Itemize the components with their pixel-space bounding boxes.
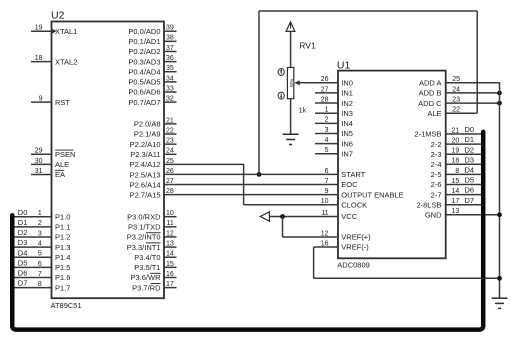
svg-text:IN0: IN0 [341, 79, 353, 88]
svg-text:P0.1/AD1: P0.1/AD1 [128, 37, 160, 46]
U2 pin 1 P1.0 wire to left bus, node D0 [14, 208, 70, 222]
svg-text:35: 35 [166, 65, 174, 72]
svg-text:16: 16 [166, 271, 174, 278]
svg-text:XTAL1: XTAL1 [55, 27, 77, 36]
U2 pin 6 P1.5 wire to left bus, node D5 [14, 258, 70, 272]
svg-text:ADD C: ADD C [418, 99, 442, 108]
svg-text:P0.3/AD3: P0.3/AD3 [128, 57, 160, 66]
U2 pin 34 P0.5/AD5 [128, 75, 176, 86]
svg-text:D3: D3 [465, 155, 475, 164]
ground symbol bottom right [492, 298, 508, 308]
U1 pin 9 OUTPUT ENABLE [325, 188, 404, 199]
svg-text:P2.4/A12: P2.4/A12 [130, 160, 161, 169]
U2 pin 25 P2.4/A12 [130, 158, 174, 169]
U1 pin 23 ADD C [418, 97, 460, 108]
power terminal arrow for RV1 [286, 22, 295, 32]
U1 pin 1 IN3 [315, 107, 353, 118]
ADC U1 ADC0809 body [337, 59, 446, 269]
U2 pin 30 ALE [31, 158, 69, 169]
svg-text:U2: U2 [51, 10, 65, 22]
svg-text:22: 22 [166, 127, 174, 134]
svg-text:19: 19 [452, 148, 460, 155]
svg-text:P2.5/A13: P2.5/A13 [130, 170, 161, 179]
svg-text:8: 8 [455, 168, 459, 175]
junction on VCC net [280, 214, 285, 219]
svg-text:18: 18 [452, 158, 460, 165]
svg-text:19: 19 [35, 25, 43, 32]
U2 pin 39 P0.0/AD0 [128, 25, 176, 36]
U1 pin 26 IN0 [321, 76, 353, 87]
U2 pin 11 P3.1/TXD [128, 220, 177, 231]
svg-text:31: 31 [35, 168, 43, 175]
svg-text:2: 2 [325, 117, 329, 124]
svg-text:P1.2: P1.2 [55, 233, 70, 242]
U1 pin 21 2-1MSB wire to right bus, node D0 [414, 125, 481, 139]
svg-text:XTAL2: XTAL2 [55, 57, 77, 66]
U1 pin 11 VCC [321, 210, 357, 221]
svg-text:P0.0/AD0: P0.0/AD0 [128, 27, 160, 36]
U2 pin 37 P0.2/AD2 [128, 45, 176, 56]
svg-text:P0.4/AD4: P0.4/AD4 [128, 67, 160, 76]
svg-text:VREF(+): VREF(+) [341, 233, 371, 242]
U1 pin 10 CLOCK [321, 198, 367, 209]
svg-text:OUTPUT ENABLE: OUTPUT ENABLE [341, 190, 403, 199]
U2 pin 13 P3.3/INT1 [127, 240, 177, 251]
svg-text:P0.6/AD6: P0.6/AD6 [128, 88, 160, 97]
wire P2.7/A15 to ADC OUTPUT ENABLE (net OE) [164, 194, 338, 196]
svg-text:27: 27 [321, 86, 329, 93]
svg-text:D6: D6 [18, 269, 28, 278]
svg-text:ALE: ALE [55, 160, 69, 169]
svg-text:P1.0: P1.0 [55, 212, 70, 221]
svg-text:38: 38 [166, 35, 174, 42]
U2 pin 28 P2.7/A15 [130, 188, 174, 199]
svg-text:P3.7/RD: P3.7/RD [132, 283, 161, 292]
U2 pin 24 P2.3/A11 [130, 148, 176, 159]
svg-text:33: 33 [166, 85, 174, 92]
svg-text:39: 39 [166, 25, 174, 32]
U2 pin 19 XTAL1 [31, 25, 77, 36]
U2 pin 9 RST [31, 96, 70, 107]
svg-text:13: 13 [452, 208, 460, 215]
U1 pin 2 IN4 [315, 117, 353, 128]
junction VREF(-) return on ground rail [497, 276, 502, 281]
junction ADD B on ground rail [497, 91, 502, 96]
svg-text:2: 2 [38, 220, 42, 227]
svg-text:D6: D6 [465, 186, 475, 195]
svg-text:D4: D4 [18, 248, 28, 257]
svg-text:P2.0/A8: P2.0/A8 [134, 120, 161, 129]
svg-text:2-7: 2-7 [431, 190, 442, 199]
svg-text:IN6: IN6 [341, 139, 353, 148]
potentiometer RV1 [287, 41, 316, 115]
U1 pin 4 IN6 [315, 137, 353, 148]
power terminal arrow for VCC net [260, 212, 269, 221]
svg-text:17: 17 [452, 198, 460, 205]
U2 pin 3 P1.2 wire to left bus, node D2 [14, 228, 70, 242]
svg-text:18: 18 [35, 55, 43, 62]
svg-text:D7: D7 [18, 279, 28, 288]
U1 pin 7 EOC [325, 178, 359, 189]
U2 pin 38 P0.1/AD1 [128, 35, 176, 46]
microcontroller U2 AT89C51 body [51, 10, 165, 311]
U2 pin 4 P1.3 wire to left bus, node D3 [14, 238, 70, 252]
U2 pin 29 PSEN [31, 148, 75, 159]
U1 pin 20 2-2 wire to right bus, node D1 [431, 135, 481, 149]
svg-text:21: 21 [166, 117, 174, 124]
svg-text:13: 13 [166, 240, 174, 247]
svg-text:30: 30 [35, 158, 43, 165]
svg-text:34: 34 [166, 75, 174, 82]
svg-text:P0.2/AD2: P0.2/AD2 [128, 47, 160, 56]
U1 pin 24 ADD B [419, 86, 461, 97]
U2 pin 27 P2.6/A14 [130, 178, 174, 189]
svg-text:D2: D2 [465, 145, 475, 154]
svg-text:12: 12 [166, 230, 174, 237]
svg-text:P0.7/AD7: P0.7/AD7 [128, 98, 160, 107]
U2 pin 15 P3.5/T1 [134, 261, 176, 272]
U2 XTAL1 clock input arrow [52, 29, 57, 34]
svg-text:24: 24 [166, 148, 174, 155]
svg-text:ADD A: ADD A [419, 79, 442, 88]
wire ADD A pin 25 to ground rail [446, 82, 500, 84]
svg-text:1k: 1k [299, 107, 307, 114]
svg-text:RST: RST [55, 98, 70, 107]
junction GND pin 13 on ground rail [497, 212, 502, 217]
U1 pin 15 2-6 wire to right bus, node D5 [431, 176, 481, 190]
U2 pin 22 P2.1/A9 [134, 127, 177, 138]
U2 pin 10 P3.0/RXD [127, 210, 176, 221]
svg-text:P1.6: P1.6 [55, 273, 70, 282]
svg-text:P2.1/A9: P2.1/A9 [134, 130, 161, 139]
svg-text:23: 23 [166, 138, 174, 145]
svg-text:14: 14 [452, 188, 460, 195]
svg-text:15: 15 [452, 178, 460, 185]
svg-text:3: 3 [325, 127, 329, 134]
svg-text:29: 29 [35, 148, 43, 155]
svg-text:P3.5/T1: P3.5/T1 [134, 263, 160, 272]
wire ADD C pin 23 to ground rail [446, 102, 500, 104]
U1 pin 6 START [325, 168, 366, 179]
wire VCC junction down to VREF(+) pin 12 [283, 217, 339, 238]
svg-text:1: 1 [325, 107, 329, 114]
U2 pin 32 P0.7/AD7 [128, 96, 176, 107]
svg-text:36: 36 [166, 55, 174, 62]
svg-text:2-8LSB: 2-8LSB [416, 200, 441, 209]
svg-text:6: 6 [38, 261, 42, 268]
svg-text:P1.1: P1.1 [55, 223, 70, 232]
svg-text:2-2: 2-2 [431, 140, 442, 149]
svg-text:U1: U1 [337, 59, 351, 71]
RV1 decrement marker (circled down arrow) [278, 92, 284, 99]
svg-text:IN3: IN3 [341, 109, 353, 118]
svg-text:4: 4 [325, 137, 329, 144]
U2 pin 14 P3.4/T0 [134, 251, 176, 262]
U1 pin 18 2-4 wire to right bus, node D3 [431, 155, 481, 169]
svg-text:9: 9 [39, 96, 43, 103]
svg-text:VCC: VCC [341, 212, 357, 221]
U2 pin 16 P3.6/WR [130, 271, 176, 282]
svg-text:P1.3: P1.3 [55, 243, 70, 252]
svg-text:2-5: 2-5 [431, 170, 442, 179]
svg-text:P1.7: P1.7 [55, 283, 70, 292]
svg-text:START: START [341, 170, 365, 179]
svg-text:P0.5/AD5: P0.5/AD5 [128, 78, 160, 87]
svg-text:VREF(-): VREF(-) [341, 243, 369, 252]
svg-text:10: 10 [166, 210, 174, 217]
wire VREF(-) pin 16 to ground rail [314, 247, 500, 278]
svg-text:GND: GND [425, 211, 442, 220]
wire P2.4/A12 to ADC CLOCK (net CLOCK) [164, 164, 338, 205]
svg-text:4: 4 [38, 240, 42, 247]
U1 pin 19 2-3 wire to right bus, node D2 [431, 145, 481, 159]
U2 pin 26 P2.5/A13 [130, 168, 174, 179]
svg-text:EA: EA [55, 170, 65, 179]
svg-text:2-1MSB: 2-1MSB [414, 130, 441, 139]
wire power arrow to RV1 top [290, 31, 292, 67]
U1 pin 22 ALE [427, 107, 460, 118]
U2 pin 31 EA [31, 168, 65, 179]
svg-text:IN7: IN7 [341, 149, 353, 158]
svg-text:P2.2/A10: P2.2/A10 [130, 140, 161, 149]
svg-text:50%: 50% [289, 79, 294, 88]
U1 pin 12 VREF(+) [321, 230, 371, 241]
U1 pin 28 IN2 [315, 96, 353, 107]
svg-text:P2.6/A14: P2.6/A14 [130, 180, 161, 189]
svg-text:P2.7/A15: P2.7/A15 [130, 191, 161, 200]
svg-text:D3: D3 [18, 238, 28, 247]
svg-text:5: 5 [38, 251, 42, 258]
svg-text:32: 32 [166, 96, 174, 103]
wire START net up-and-over loop to ADC ALE pin 22 [259, 11, 477, 174]
svg-text:D5: D5 [465, 176, 475, 185]
svg-text:ADC0809: ADC0809 [337, 261, 370, 270]
svg-text:P1.5: P1.5 [55, 263, 70, 272]
svg-text:D1: D1 [18, 218, 28, 227]
svg-text:15: 15 [166, 261, 174, 268]
svg-text:2-3: 2-3 [431, 150, 442, 159]
U2 pin 2 P1.1 wire to left bus, node D1 [14, 218, 70, 232]
junction ADD C on ground rail [497, 101, 502, 106]
svg-text:ALE: ALE [427, 109, 441, 118]
svg-text:IN1: IN1 [341, 89, 353, 98]
svg-text:20: 20 [452, 138, 460, 145]
U1 pin 5 IN7 [315, 147, 353, 158]
U1 pin 16 VREF(-) [321, 240, 370, 251]
wire P2.5/A13 to ADC START (net START) [164, 173, 338, 175]
svg-text:PSEN: PSEN [55, 150, 75, 159]
U2 pin 23 P2.2/A10 [130, 138, 177, 149]
svg-text:P3.3/INT1: P3.3/INT1 [127, 243, 161, 252]
svg-text:14: 14 [166, 251, 174, 258]
svg-text:D2: D2 [18, 228, 28, 237]
svg-text:3: 3 [38, 230, 42, 237]
U1 pin 3 IN5 [315, 127, 353, 138]
RV1 increment marker (circled up arrow) [278, 69, 284, 76]
svg-text:8: 8 [38, 281, 42, 288]
svg-text:RV1: RV1 [299, 41, 316, 51]
U1 pin 27 IN1 [315, 86, 353, 97]
svg-text:11: 11 [167, 220, 174, 227]
svg-text:P3.0/RXD: P3.0/RXD [127, 212, 161, 221]
svg-text:P3.4/T0: P3.4/T0 [134, 253, 160, 262]
svg-text:2-6: 2-6 [431, 180, 442, 189]
U2 pin 33 P0.6/AD6 [128, 85, 176, 96]
svg-text:21: 21 [452, 127, 460, 134]
junction on START net [257, 172, 262, 177]
U2 pin 36 P0.3/AD3 [128, 55, 176, 66]
svg-text:D0: D0 [465, 125, 475, 134]
svg-text:5: 5 [325, 147, 329, 154]
svg-text:IN4: IN4 [341, 119, 353, 128]
U1 pin 25 ADD A [419, 76, 460, 87]
svg-text:28: 28 [321, 96, 329, 103]
svg-text:P2.3/A11: P2.3/A11 [130, 150, 160, 159]
wire VCC pin 11 to power arrow [269, 216, 338, 218]
U2 pin 21 P2.0/A8 [134, 117, 177, 128]
U1 pin 13 GND wire to ground rail [425, 208, 500, 219]
svg-text:P3.2/INT0: P3.2/INT0 [127, 233, 161, 242]
svg-text:1: 1 [38, 210, 42, 217]
U2 pin 35 P0.4/AD4 [128, 65, 176, 76]
U2 pin 18 XTAL2 [31, 55, 77, 66]
svg-text:P3.1/TXD: P3.1/TXD [128, 223, 161, 232]
svg-text:EOC: EOC [341, 180, 358, 189]
svg-text:P1.4: P1.4 [55, 253, 70, 262]
ground symbol below RV1 [283, 134, 299, 144]
svg-text:ADD B: ADD B [419, 89, 442, 98]
U2 pin 17 P3.7/RD [132, 281, 176, 292]
data bus D0-D7 (left riser, bottom run, right riser) [12, 132, 483, 330]
U2 pin 7 P1.6 wire to left bus, node D6 [14, 269, 70, 283]
svg-text:D1: D1 [465, 135, 475, 144]
U1 pin 14 2-7 wire to right bus, node D6 [431, 186, 481, 200]
svg-text:IN5: IN5 [341, 129, 353, 138]
svg-text:D7: D7 [465, 196, 475, 205]
svg-text:17: 17 [166, 281, 174, 288]
svg-text:37: 37 [166, 45, 174, 52]
svg-text:D4: D4 [465, 166, 475, 175]
svg-text:P3.6/WR: P3.6/WR [130, 273, 161, 282]
svg-text:AT89C51: AT89C51 [51, 301, 82, 310]
U2 pin 5 P1.4 wire to left bus, node D4 [14, 248, 70, 262]
svg-text:D5: D5 [18, 258, 28, 267]
wire ADD B pin 24 to ground rail [446, 92, 500, 94]
U2 pin 8 P1.7 wire to left bus, node D7 [14, 279, 70, 293]
wire RV1 bottom to ground [290, 99, 292, 134]
U1 pin 17 2-8LSB wire to right bus, node D7 [416, 196, 481, 210]
svg-text:D0: D0 [18, 208, 28, 217]
ground rail vertical wire right side [499, 82, 501, 298]
svg-text:7: 7 [38, 271, 42, 278]
RV1 wiper arrow on wire to U1 IN0 [294, 80, 338, 85]
U1 pin 8 2-5 wire to right bus, node D4 [431, 166, 481, 180]
wire P2.6/A14 to ADC EOC (net EOC) [164, 184, 338, 186]
svg-text:CLOCK: CLOCK [341, 200, 367, 209]
svg-text:2-4: 2-4 [431, 160, 442, 169]
svg-text:IN2: IN2 [341, 99, 353, 108]
U2 pin 12 P3.2/INT0 [127, 230, 177, 241]
